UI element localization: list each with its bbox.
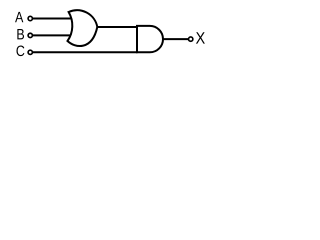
- terminal C: [28, 50, 32, 54]
- OR gate (inputs A, B): [68, 10, 98, 46]
- wire AND output to X: [163, 38, 188, 40]
- wire A to OR gate input: [33, 18, 72, 20]
- wire B to OR gate input: [33, 34, 72, 36]
- node A label: [15, 12, 23, 22]
- terminal B: [28, 33, 32, 37]
- terminal A: [28, 16, 32, 20]
- node B label: [17, 29, 24, 39]
- wire OR output to AND gate input: [97, 26, 138, 28]
- wire C to AND gate input: [33, 51, 138, 53]
- terminal X: [189, 37, 193, 41]
- node X label: [196, 32, 205, 43]
- AND gate (inputs OR output, C; output X): [137, 26, 163, 52]
- node C label: [16, 45, 24, 56]
